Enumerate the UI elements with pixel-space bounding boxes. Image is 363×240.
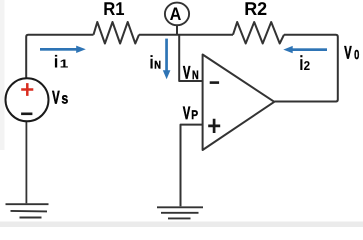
svg-text:2: 2: [304, 58, 310, 73]
op-amp minus input sign: [210, 81, 219, 84]
svg-text:R1: R1: [103, 0, 124, 19]
svg-text:0: 0: [354, 47, 359, 62]
voltage source VS circle: [6, 78, 49, 121]
wire non-inverting input to ground: [181, 125, 203, 207]
svg-text:V: V: [183, 63, 190, 83]
svg-text:V: V: [344, 42, 351, 62]
op-amp plus input sign: [208, 119, 220, 133]
voltage source plus sign: [21, 83, 33, 96]
svg-text:1: 1: [60, 58, 69, 71]
svg-text:s: s: [61, 91, 68, 108]
svg-text:R2: R2: [244, 0, 267, 19]
node A tick: [176, 25, 178, 35]
ground (left): [6, 204, 49, 217]
wire top-left corner + left vertical to source: [26, 35, 93, 79]
wire source to left ground: [25, 121, 27, 203]
ground (middle): [157, 207, 203, 218]
voltage source minus sign: [21, 113, 32, 116]
svg-text:N: N: [154, 60, 161, 72]
current arrow i1: [40, 46, 86, 53]
current arrow iN: [163, 39, 171, 80]
op-amp U1: [203, 55, 275, 151]
resistor R2: [233, 22, 284, 44]
resistor R1: [94, 22, 140, 44]
svg-text:A: A: [170, 4, 182, 24]
svg-text:N: N: [192, 68, 199, 82]
wire top middle (R1 to R2): [139, 34, 233, 36]
svg-text:V: V: [183, 103, 190, 123]
svg-text:P: P: [191, 108, 198, 122]
current arrow i2: [283, 46, 327, 53]
node A: [165, 3, 189, 26]
svg-text:i: i: [149, 52, 153, 73]
svg-text:V: V: [52, 88, 60, 108]
wire top-right + right vertical + output horizontal: [275, 35, 338, 102]
svg-text:i: i: [54, 52, 59, 72]
wire node to inverting input: [179, 35, 202, 81]
